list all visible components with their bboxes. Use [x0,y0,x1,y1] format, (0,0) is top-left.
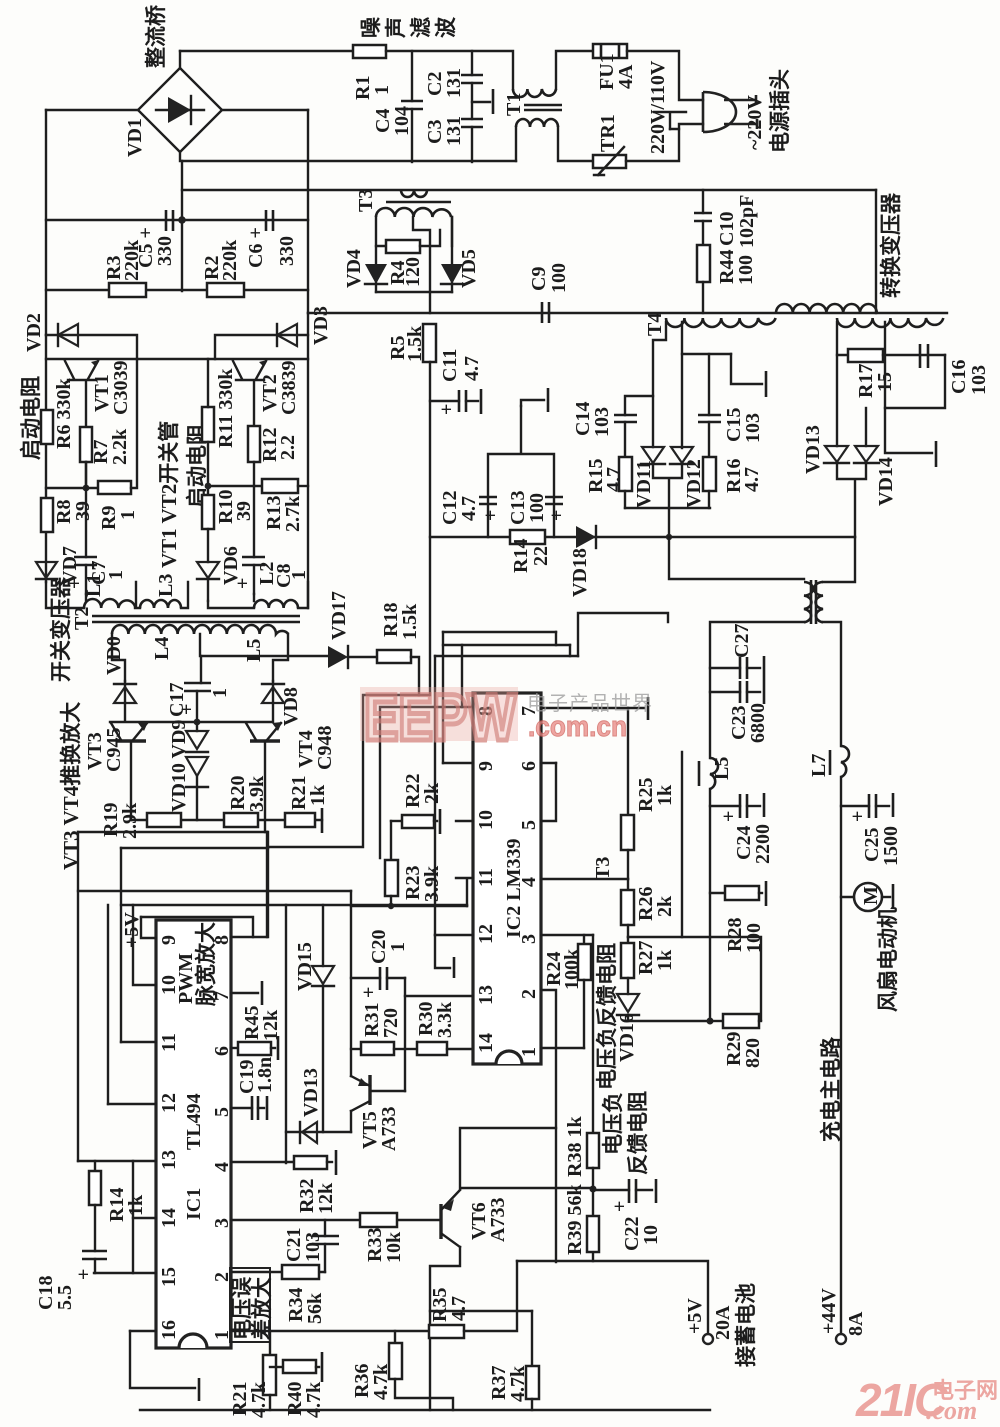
svg-text:R6 330k: R6 330k [53,378,75,449]
svg-text:1: 1 [387,942,409,952]
svg-text:转换变压器: 转换变压器 [879,192,903,298]
diode VD14 [865,408,867,446]
wire VD17 to R18 [348,656,377,658]
svg-text:接蓄电池: 接蓄电池 [734,1283,758,1367]
svg-text:IC2 LM339: IC2 LM339 [503,839,525,938]
wire L5 right end down to VD8 [273,634,288,681]
svg-text:103: 103 [968,365,990,395]
svg-text:4: 4 [518,877,540,887]
svg-text:100: 100 [548,263,570,293]
bottom rail [140,1409,710,1411]
svg-text:1.8n: 1.8n [254,1057,276,1093]
T1 core [524,105,562,110]
resistor R5 [423,324,436,362]
wire y=537 output bus [430,536,855,538]
capacitor C22 [593,1189,629,1191]
resistor R24 [583,935,585,944]
transistor VT6 [439,1204,442,1239]
svg-text:14: 14 [475,1033,497,1053]
wire R4 right [420,230,440,246]
resistor R18 [377,650,411,663]
resistor R38 [592,935,594,1133]
capacitor C9 [542,302,549,323]
capacitor C6 [266,210,273,231]
svg-text:39: 39 [72,501,94,521]
wire bend y=891 to bus [350,891,352,1076]
resistor R4 [386,240,420,253]
wire TR1 to plug lower [626,129,679,161]
inductor L1 [84,599,135,608]
svg-text:2k: 2k [421,782,443,804]
capacitor C24 [710,805,740,807]
svg-text:1k: 1k [654,949,676,971]
svg-text:720: 720 [380,1008,402,1038]
wire node y=488 [46,487,98,489]
svg-text:VD2: VD2 [23,313,45,352]
wire y=1311 to R37 [430,1310,532,1312]
diode VD13 (lower) [302,1122,317,1143]
svg-text:VD14: VD14 [875,457,897,506]
capacitor C14 branch [625,396,653,415]
wire y=359 horizontal [46,358,308,360]
svg-text:131: 131 [443,116,465,146]
svg-text:EEPW: EEPW [364,680,517,754]
svg-text:VD5: VD5 [458,249,480,288]
svg-text:100k: 100k [561,948,583,990]
svg-text:C17: C17 [166,683,188,717]
svg-text:100: 100 [526,493,548,523]
wire rail y=891 [78,890,351,892]
wire bridge top [179,51,181,68]
ground at R21 [321,808,324,833]
svg-text:11: 11 [475,868,497,887]
svg-text:电源插头: 电源插头 [768,69,792,153]
wire VD13/VD14 bottoms [837,463,866,537]
svg-text:104: 104 [391,106,413,136]
svg-text:12: 12 [158,1093,180,1113]
svg-text:220k: 220k [121,239,143,281]
diode VD18 [576,526,596,548]
diode VD12 [671,447,693,463]
svg-text:波: 波 [434,16,458,38]
capacitor C17 [184,683,211,691]
svg-text:12: 12 [475,924,497,944]
svg-text:C3839: C3839 [278,361,300,415]
svg-text:C945: C945 [103,728,125,772]
ground at pin16 [130,1331,195,1388]
svg-text:R14: R14 [510,539,532,573]
svg-text:56k: 56k [304,1292,326,1324]
wire R5 down long vertical x=430 [429,362,431,695]
wire VD11/VD12 bottoms join [653,464,682,537]
svg-text:VD12: VD12 [683,459,705,508]
resistor R45 [238,1042,271,1055]
resistor R7 [80,427,92,462]
resistor R39 [587,1216,599,1252]
resistor R36 [394,1331,396,1343]
capacitor C21 [324,1220,326,1236]
wire rect over IC1 [141,917,253,937]
svg-text:3.9k: 3.9k [246,775,268,812]
resistor R1 [353,45,386,58]
wire center tap to VD17 [200,634,328,656]
junction dot R29 [707,1018,714,1025]
svg-text:1: 1 [105,570,127,580]
wire bus y=905 [121,904,467,906]
motor M [841,896,855,898]
diode VD11 [642,447,664,463]
wire x=108 rail [107,905,109,1104]
wire +5V feed [517,1261,708,1334]
svg-text:16: 16 [158,1320,180,1340]
wire VT6 collector net [460,1128,593,1189]
voltage selector 220V/110V bar [654,112,686,129]
svg-text:VT1 VT2开关管: VT1 VT2开关管 [157,421,181,568]
svg-text:VD15: VD15 [294,942,316,991]
svg-text:3.9k: 3.9k [421,865,443,902]
wire T1 lower left down [515,127,517,161]
svg-text:VD4: VD4 [343,249,365,288]
capacitor C8 [253,486,255,557]
resistor R21 (4.7k) [269,1331,271,1355]
wire right coil left end down to R17 line [837,322,848,355]
svg-text:T3: T3 [355,189,377,212]
resistor R44 [697,245,710,282]
wire top rail y=51 from bridge to R1 [180,50,353,52]
resistor R29 [710,1020,723,1022]
diode VD6 [207,529,209,562]
svg-text:6800: 6800 [747,703,769,743]
resistor R9 [98,481,131,494]
svg-text:1: 1 [288,570,310,580]
svg-text:5.5: 5.5 [54,1285,76,1310]
wire long rail y=190 [182,189,876,191]
junction dot [178,216,186,224]
diode VD0 [124,681,126,703]
wire T4 left end down [653,322,666,447]
svg-text:滤: 滤 [409,17,433,38]
svg-text:VT3 VT4推换放大: VT3 VT4推换放大 [59,702,83,870]
resistor R23 [390,821,392,860]
svg-text:+: + [358,987,380,998]
wire x=405 [404,978,406,1091]
svg-text:10: 10 [640,1225,662,1245]
svg-text:22: 22 [530,546,552,566]
svg-text:1: 1 [209,688,231,698]
svg-text:C3039: C3039 [110,361,132,415]
resistor R31 [351,1048,361,1050]
svg-text:L1: L1 [83,574,105,597]
svg-text:14: 14 [158,1208,180,1228]
svg-text:120: 120 [402,257,424,287]
wire T3 left bottom [710,622,804,758]
transformer T1 upper coil [513,89,556,97]
svg-text:T3: T3 [592,857,614,880]
svg-text:1.5k: 1.5k [404,325,426,362]
svg-text:103: 103 [302,1232,324,1262]
wire L4 left end down to VD0 [112,634,125,681]
svg-text:4: 4 [211,1162,233,1172]
svg-text:L7: L7 [808,754,830,777]
svg-text:M: M [860,886,882,905]
svg-text:~220V: ~220V [744,95,766,150]
converter transformer primary winding [776,304,877,313]
svg-text:4.7: 4.7 [458,496,480,521]
logo 21IC [855,1374,998,1426]
capacitor C3 [461,119,483,127]
svg-text:反馈电阻: 反馈电阻 [626,1091,650,1175]
svg-text:+: + [609,1201,631,1212]
wire VD4-VD5 bottom [376,291,452,293]
wire T3 right leg [451,217,453,246]
svg-text:11: 11 [158,1033,180,1052]
transformer T3 top winding [401,190,427,197]
svg-text:VD3: VD3 [310,306,332,345]
capacitor C2 [471,51,473,75]
diode VD10 [186,757,208,776]
svg-text:1.5k: 1.5k [399,603,421,640]
svg-text:VD18: VD18 [569,548,591,597]
svg-text:2.7k: 2.7k [282,495,304,532]
capacitor C27 [710,667,740,669]
svg-text:R39 56k: R39 56k [564,1184,586,1255]
watermark EEPW [360,680,653,754]
resistor R37 [531,1311,533,1366]
svg-text:+5V: +5V [684,1298,706,1334]
wire y=51 R1 to T1 [386,51,513,89]
svg-text:1: 1 [117,510,139,520]
svg-text:131: 131 [443,68,465,98]
diode VD2 [46,335,137,359]
capacitor C12 [479,497,497,504]
svg-text:4.7: 4.7 [461,356,483,381]
diode VD13 [836,355,838,446]
svg-text:C27: C27 [731,624,753,658]
svg-text:TR1: TR1 [597,114,619,152]
svg-text:1k: 1k [307,784,329,806]
svg-text:4.7k: 4.7k [370,1363,392,1400]
wire T3 right top [823,537,855,582]
resistor R22 [391,820,402,822]
svg-text:2200: 2200 [752,824,774,864]
capacitor C10 [702,190,704,213]
wire FU1 to plug [627,51,703,100]
svg-text:4.7k: 4.7k [248,1381,270,1418]
svg-text:A733: A733 [378,1107,400,1151]
resistor R34 [282,1265,319,1279]
secondary L4/L5 winding [112,625,288,634]
resistor R14 (22) [510,530,545,544]
svg-text:8: 8 [211,935,233,945]
fuse FU1 [593,44,627,58]
bridge rectifier VD1 [138,68,222,152]
svg-text:+: + [546,510,568,521]
svg-text:4.7k: 4.7k [507,1365,529,1402]
diode VD7 [36,562,57,578]
wire x=682 [681,752,683,937]
resistor R25 [627,708,629,815]
svg-text:1: 1 [518,1047,540,1057]
resistor R21 [285,813,315,827]
svg-text:C16: C16 [948,360,970,394]
resistor R6 [41,410,53,444]
wire VT6 emitter [430,1247,460,1410]
capacitor C15 branch [708,354,710,415]
svg-text:5: 5 [518,820,540,830]
resistor R20 [224,813,258,827]
capacitor C19 [252,1096,258,1120]
capacitor C4 [411,51,413,101]
resistor R15 [619,457,632,491]
svg-text:4.7k: 4.7k [303,1381,325,1418]
resistor R2 [207,283,244,297]
resistor R13 [262,479,298,493]
wire x=133 pins13-15 bus [132,1161,134,1273]
svg-text:12k: 12k [315,1182,337,1214]
inductor L7 [841,746,849,777]
label 电压误差放大 box [230,1268,270,1342]
svg-text:+: + [480,510,502,521]
capacitor C5 [166,210,173,231]
wire rail y=231 [46,219,308,221]
transformer T1 lower coil [516,119,558,127]
svg-text:1k: 1k [125,1194,147,1216]
svg-text:.com.cn: .com.cn [528,711,627,743]
resistor R35 [429,1325,464,1338]
svg-text:103: 103 [591,407,613,437]
IC2 body [473,693,541,1064]
svg-text:103: 103 [742,413,764,443]
wire +5V rail [120,848,122,1042]
svg-text:3: 3 [518,934,540,944]
resistor R16 [703,457,716,491]
wire y=848 link [121,847,268,849]
svg-text:220V/110V: 220V/110V [647,60,669,154]
svg-text:+: + [232,578,254,589]
svg-text:C11: C11 [439,349,461,382]
wire node y=486 right [208,485,262,487]
svg-text:+: + [73,1269,95,1280]
svg-text:15: 15 [158,1267,180,1287]
svg-text:VD17: VD17 [328,591,350,640]
svg-text:220k: 220k [219,239,241,281]
svg-text:2.9k: 2.9k [119,802,141,839]
wire bridge left to left rail [46,109,138,111]
transistor VT3 [116,739,146,743]
resistor R33 [360,1213,397,1227]
svg-text:1: 1 [371,85,393,95]
svg-text:C9: C9 [528,267,550,291]
svg-text:39: 39 [233,501,255,521]
wire y=937 R26 to R29 riser [628,937,761,1020]
wire x=182 drop [181,161,183,291]
wire rail y=313 [308,312,947,314]
transistor VT1 [68,379,96,381]
svg-text:20A: 20A [712,1305,734,1340]
svg-text:2.2: 2.2 [277,435,299,460]
wire left rail x=46 [45,110,47,335]
resistor R19 [147,813,181,827]
resistor R28 [710,892,725,894]
resistor R17 [848,349,883,362]
capacitor C7 [85,462,87,557]
svg-text:1500: 1500 [880,826,902,866]
small ground pin12 [435,935,450,968]
wire T3 right bottom to L7 [823,622,841,746]
svg-text:9: 9 [475,761,497,771]
diode VD15 [322,905,324,966]
wire VD12 branch [681,354,683,448]
svg-text:整流桥: 整流桥 [144,4,168,68]
svg-text:100: 100 [735,255,757,285]
capacitor C25 [841,805,869,807]
svg-text:L4: L4 [151,637,173,660]
wire VT4 emitter riser [266,832,268,937]
resistor R26 [627,879,629,890]
transistor VT5 [350,1111,352,1132]
svg-text:IC1: IC1 [183,1188,205,1220]
T3 core line [386,201,451,204]
svg-text:VD13: VD13 [802,425,824,474]
wire R19 row y=822 [131,819,322,821]
resistor R3 [109,283,146,297]
wire y=695 bus [268,695,429,847]
svg-text:VD0: VD0 [103,636,125,675]
svg-text:3: 3 [211,1218,233,1228]
resistor R32 [294,1156,327,1169]
wire bridge right [222,109,308,111]
wire left rail continue [45,335,47,582]
svg-text:13: 13 [158,1150,180,1170]
diode VD9 [196,722,198,731]
wire R18 to x=430 [411,657,419,695]
ground at C2/C3 [472,101,490,103]
resistor R14 (1k) [94,1161,96,1171]
svg-text:声: 声 [384,17,408,39]
diode VD3 [215,335,308,359]
svg-text:R11 330k: R11 330k [215,368,237,448]
ground stub at T4 [731,354,762,384]
ground branch [885,408,932,453]
wire VT3/VT4 base bus y=722 [110,703,273,722]
svg-text:6: 6 [211,1046,233,1056]
ground above C12/C13 [521,400,544,406]
svg-text:VD1: VD1 [124,118,146,157]
diode VD5 [451,217,453,292]
wire T4 inner tap down and right [682,322,731,354]
power plug ~220V [703,92,757,132]
svg-text:风扇电动机: 风扇电动机 [876,907,900,1012]
C12/C13 box [488,406,554,537]
wire R17 to C16 [883,354,945,356]
svg-text:启动电阻: 启动电阻 [19,376,43,460]
svg-text:C6 +: C6 + [245,227,267,268]
svg-text:噪: 噪 [359,16,383,38]
wire block bottom rail y=508 [625,507,710,509]
svg-text:3.3k: 3.3k [434,1001,456,1038]
wire y=1132 [286,1131,351,1133]
transformer T3 output [669,537,804,579]
svg-text:+: + [436,404,458,415]
svg-text:充电主电路: 充电主电路 [819,1036,843,1142]
T4 secondary winding [666,318,776,327]
svg-text:1k: 1k [654,784,676,806]
svg-text:13: 13 [475,985,497,1005]
wire center tap down [885,322,945,408]
svg-text:L3: L3 [155,574,177,597]
resistor R8 [41,498,53,532]
bus wires above IC2 [435,632,578,656]
